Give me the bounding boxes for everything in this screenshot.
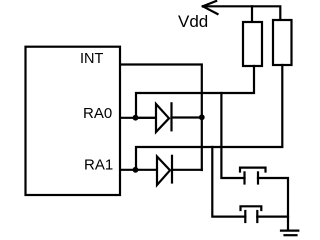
- IC U1 box: [26, 47, 121, 195]
- svg-text:RA0: RA0: [83, 105, 112, 122]
- wire R1 top lead: [251, 6, 253, 22]
- wire S2 to ground rail: [257, 216, 288, 218]
- diode D1: [156, 104, 169, 132]
- wire node B drop to switch S2: [212, 147, 245, 217]
- Vdd arrow head: [203, 1, 218, 14]
- diode D2: [157, 157, 170, 186]
- svg-text:INT: INT: [80, 51, 104, 67]
- wire D1 cathode to INT line: [172, 116, 202, 118]
- wire RA0 pin: [121, 117, 156, 119]
- resistor R1: [243, 22, 262, 66]
- wire S1 to ground rail: [258, 178, 288, 230]
- svg-text:RA1: RA1: [84, 157, 113, 174]
- wire node A drop to switch S1: [221, 93, 244, 178]
- wire INT pin to vertical drop: [121, 65, 202, 171]
- wire Vdd top rail: [203, 6, 280, 20]
- junction dot D1/INT: [199, 114, 205, 120]
- node B junction dot: [133, 167, 139, 173]
- wire R2 bottom lead to node B rail: [136, 65, 282, 170]
- switch S1 pushbutton: [240, 168, 266, 184]
- wire D2 cathode to INT line: [172, 169, 202, 171]
- wire R1 bottom lead to node A rail: [136, 66, 254, 118]
- wire RA1 pin: [121, 169, 157, 171]
- switch S2 pushbutton: [241, 206, 262, 222]
- svg-text:Vdd: Vdd: [178, 12, 208, 31]
- node A junction dot: [133, 115, 139, 121]
- resistor R2: [273, 20, 292, 65]
- diode D1 anode wire: [138, 117, 156, 119]
- ground: [281, 231, 298, 236]
